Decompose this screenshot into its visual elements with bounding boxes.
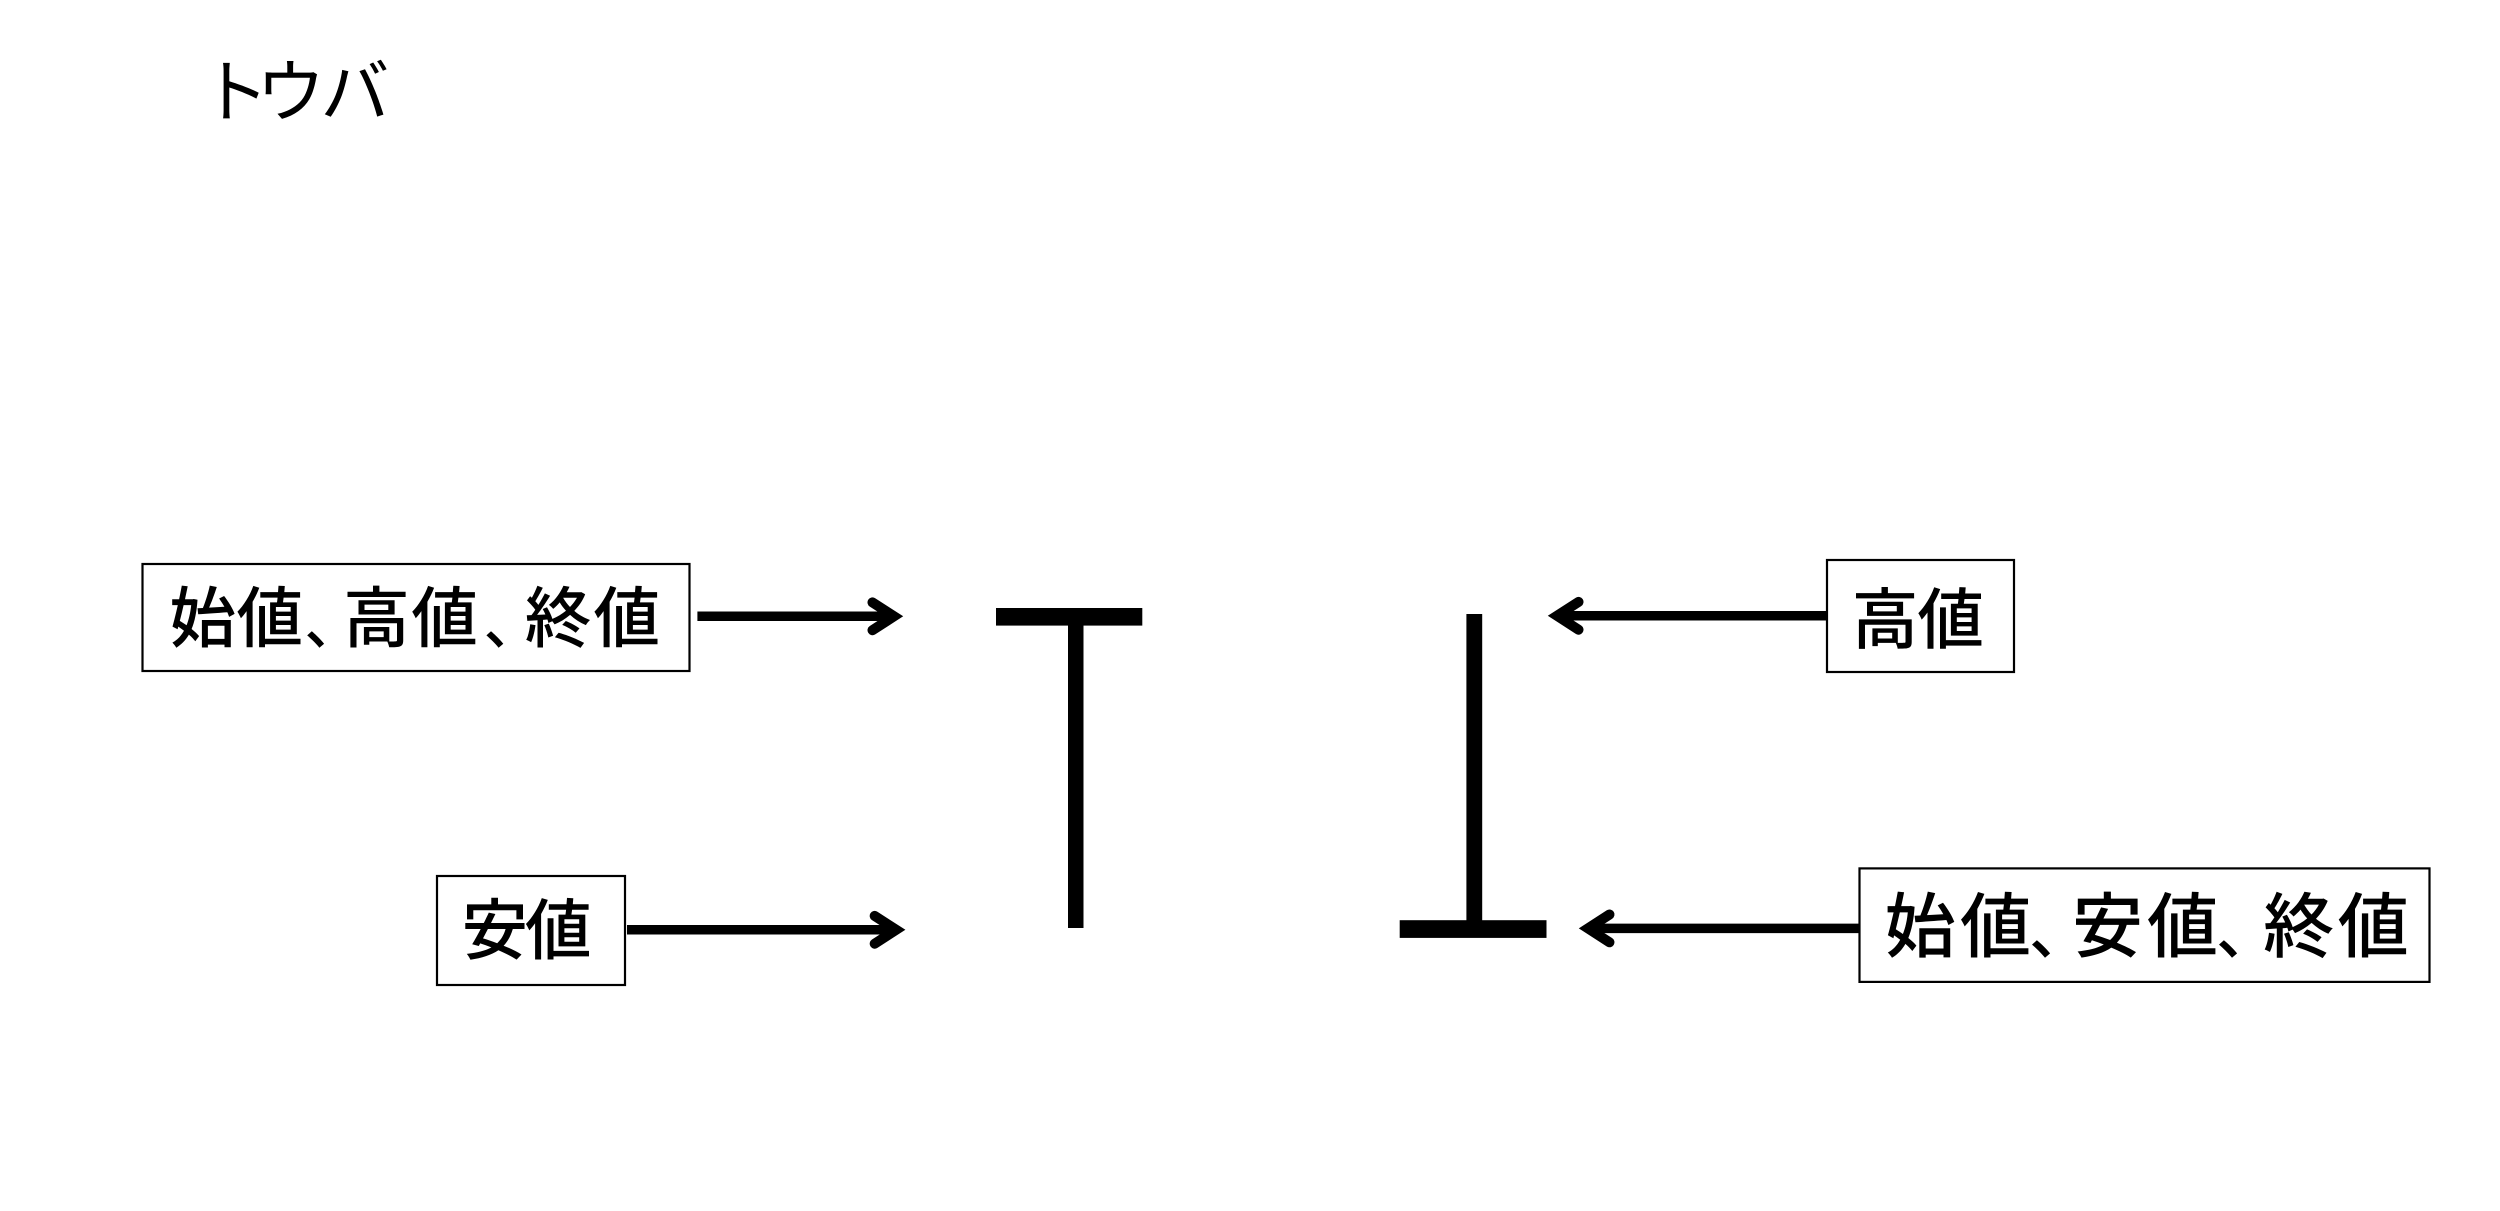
arrow from 始値、高値、終値 box to left candle top [697, 612, 892, 622]
right candle bottom bar: open/low/close [1400, 920, 1547, 938]
right candle (dragonfly doji) upper shadow stem [1466, 614, 1482, 922]
label box 始値、高値、終値 [143, 564, 690, 671]
label text 安値 [465, 898, 589, 960]
left candle lower shadow stem [1068, 610, 1084, 928]
label text 始値、高値、終値 [172, 586, 657, 648]
title トウバ [223, 60, 387, 119]
label box 始値、安値、終値 [1860, 868, 2430, 982]
label text 高値 [1856, 587, 1981, 649]
arrow from 高値 box to right candle top [1559, 611, 1827, 621]
label box 高値 [1827, 560, 2014, 672]
arrow from 始値、安値、終値 box to right candle bottom [1590, 924, 1860, 934]
left candle (gravestone doji) top bar: open/high/close [996, 608, 1142, 626]
label text 始値、安値、終値 [1888, 892, 2407, 959]
label box 安値 [437, 876, 625, 985]
arrow from 安値 box to left candle bottom [627, 925, 894, 935]
